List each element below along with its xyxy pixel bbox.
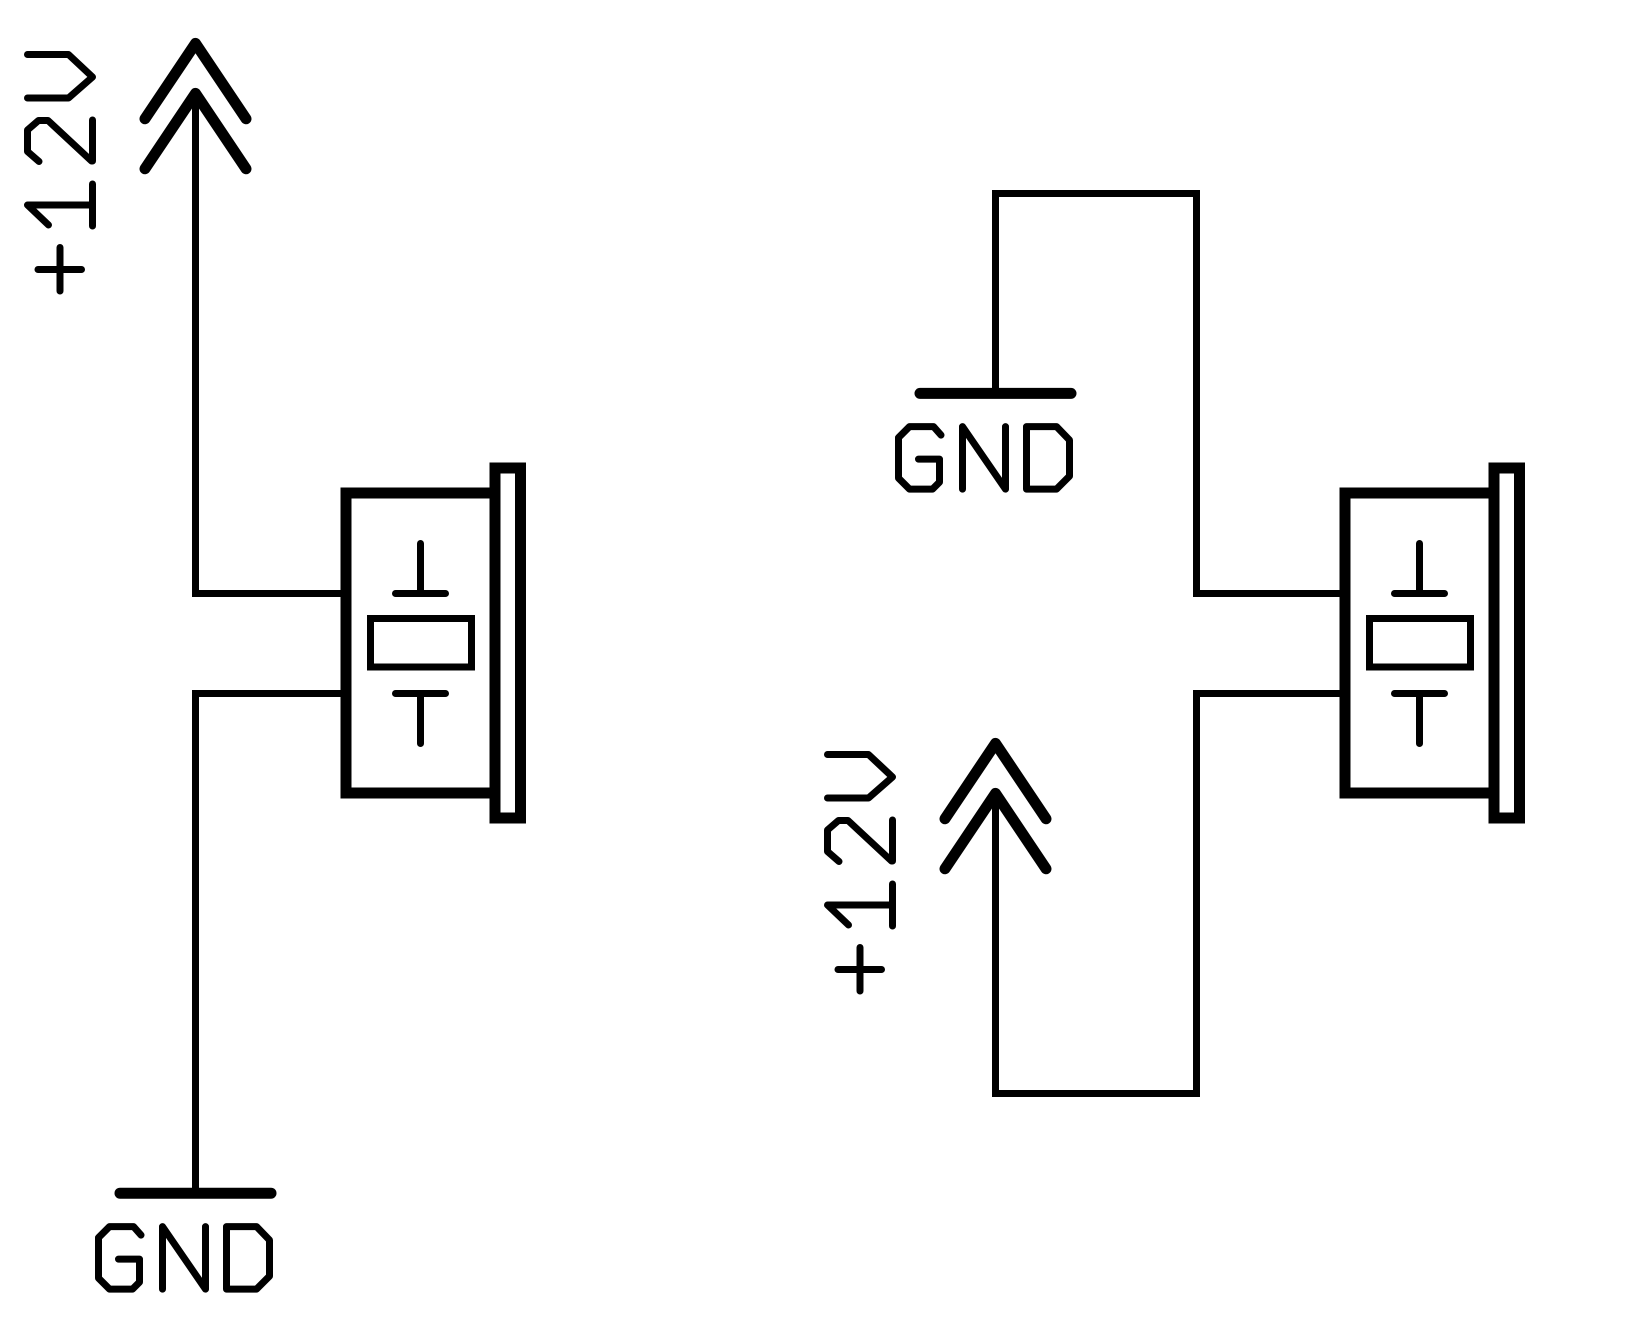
wire: across the top of right circuit [992,190,1200,197]
wire: up from right GND [992,190,999,390]
label +12V (left, rotated) [28,55,93,292]
speaker LS2 [1345,468,1520,818]
label +12V (right, rotated) [828,755,893,992]
label GND (left) [99,1227,270,1290]
power symbol +12V (right) [945,743,1046,868]
wire: left +12V stem down [192,97,199,597]
wire: into LS1 pin 1 [192,590,346,597]
speaker LS1 [346,468,521,818]
power symbol +12V (left) [145,43,246,168]
wire: from LS1 pin 2 leftward [192,690,346,697]
wire: across the bottom to right +12V [992,1090,1200,1097]
wire: into LS2 pin 1 [1193,590,1345,597]
ground symbol GND (left) [120,1192,271,1194]
ground symbol GND (right) [920,392,1071,394]
label GND (right) [899,427,1070,490]
wire: down to LS2 pin 1 level [1193,190,1200,597]
wire: right +12V stem up [992,797,999,1097]
wire: from LS2 pin 2 leftward [1193,690,1345,697]
wire: down along right side [1193,690,1200,1097]
wire: down to left GND [192,690,199,1193]
